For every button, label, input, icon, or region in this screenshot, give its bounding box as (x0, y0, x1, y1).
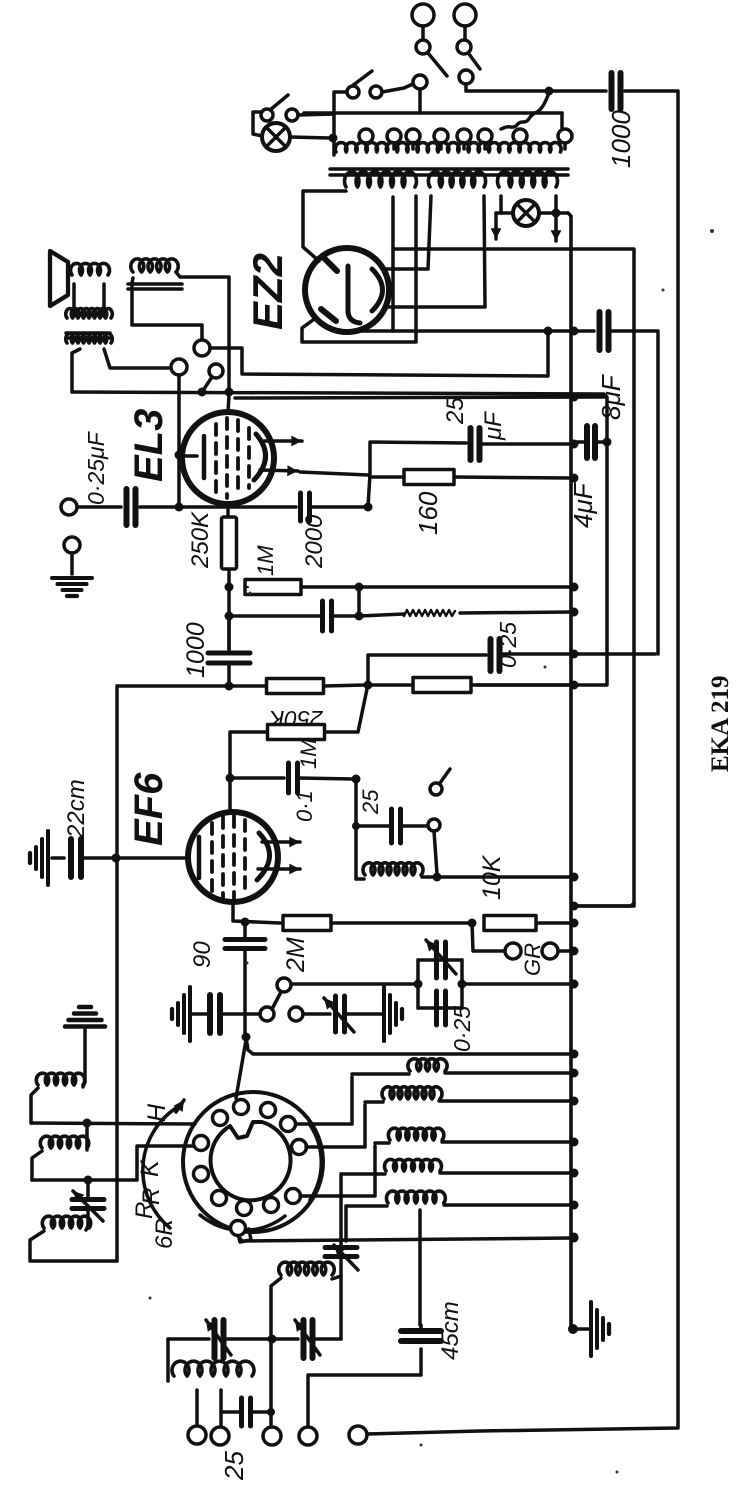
junction (364, 503, 373, 512)
terminal 3 (263, 1427, 281, 1445)
svg-text:EKA 219: EKA 219 (707, 675, 734, 772)
wire lamp bracket (253, 112, 262, 136)
wire (354, 779, 358, 879)
capacitor 22cm (71, 839, 81, 877)
wire (324, 685, 365, 686)
wire lamp to transformer (290, 137, 330, 138)
tap stub (392, 143, 396, 149)
terminal 1 (188, 1426, 206, 1444)
wire (221, 1410, 240, 1414)
junction (570, 1233, 579, 1242)
label 6R (151, 1218, 178, 1249)
EL3 connection arrow 1 (264, 436, 302, 447)
speaker cone (50, 251, 68, 306)
wire (331, 921, 470, 925)
fuse lever 2 (469, 54, 480, 69)
ground (switch) (172, 987, 190, 1041)
wire (370, 475, 404, 479)
wire phono coupling (291, 982, 415, 986)
wire (30, 1231, 117, 1261)
label H (143, 1103, 171, 1122)
wire box bottom (418, 1006, 462, 1010)
wire terminal to grid line (177, 375, 181, 503)
wire (434, 831, 437, 874)
svg-text:2M: 2M (282, 937, 310, 973)
wire (70, 553, 74, 574)
wire (332, 614, 356, 618)
svg-text:H: H (143, 1103, 171, 1122)
wire grid line (82, 856, 186, 860)
wire (382, 84, 413, 92)
primary tap terminal 2 (387, 129, 401, 143)
ground (antenna) (65, 1007, 105, 1027)
junction bus (570, 474, 579, 483)
wire S2 right to tube (386, 196, 485, 307)
wire (339, 1241, 343, 1247)
voice coil (71, 263, 110, 275)
svg-text:45cm: 45cm (437, 1301, 464, 1360)
coil L5 (386, 1191, 445, 1203)
primary tap terminal 8 (558, 129, 572, 143)
junction (241, 918, 250, 927)
ground (right) (384, 987, 402, 1041)
band switch contact 7 (264, 1198, 279, 1213)
switch lever (352, 71, 372, 86)
wire (252, 1410, 271, 1414)
wire S1 left end to plate 1 (303, 191, 346, 261)
coil L2 (382, 1087, 442, 1099)
capacitor 2000 (301, 493, 310, 521)
band switch contact 1 (213, 1111, 228, 1126)
tap 2 (219, 1390, 223, 1427)
wire (86, 1180, 90, 1198)
capacitor 45cm (401, 1331, 441, 1341)
primary tap terminal 5 (457, 129, 471, 143)
resistor 1M (EF6 grid) (268, 725, 325, 740)
capacitor 1000 (mains) (612, 73, 621, 109)
svg-text:25: 25 (358, 789, 383, 815)
tap stub (462, 143, 466, 149)
label 1M (296, 738, 321, 769)
wire (243, 926, 247, 939)
wire (85, 1123, 89, 1145)
wire box top (418, 958, 462, 962)
heater feed arrow right (551, 217, 562, 241)
resistor 1M (245, 580, 301, 595)
wire (227, 620, 231, 653)
wire (225, 1337, 298, 1341)
wire field coil right down (176, 272, 229, 389)
junction bus (570, 873, 579, 882)
svg-text:EZ2: EZ2 (244, 253, 291, 330)
junction (552, 209, 561, 218)
capacitor 0.25 (bottom) (437, 991, 446, 1025)
trimmer arrow (73, 1191, 103, 1221)
wire band K line (32, 1146, 193, 1180)
junction EL3 top cap (225, 388, 234, 397)
svg-text:0·25: 0·25 (495, 622, 521, 668)
band switch outer ring (183, 1092, 323, 1232)
wire (481, 442, 571, 446)
wire AVC line left (117, 684, 266, 688)
wire to transformer (334, 92, 347, 155)
switch contact 3 (277, 978, 291, 992)
junction bus (570, 583, 579, 592)
junction bus (570, 1201, 579, 1210)
wire (365, 1100, 383, 1104)
svg-text:4μF: 4μF (568, 481, 598, 528)
svg-text:1000: 1000 (182, 622, 210, 678)
wire (52, 856, 64, 860)
wire (454, 477, 571, 478)
label 2M (282, 937, 310, 973)
wire HV centre tap down (391, 197, 395, 331)
wire plate 2 to S1 right end (302, 196, 416, 342)
wire (402, 824, 427, 828)
band arrow (174, 1100, 185, 1112)
EF6 connection arrow 1 (262, 837, 300, 848)
switch contact 4 (459, 70, 473, 84)
wire (192, 1012, 209, 1016)
wire (31, 1088, 38, 1123)
junction AVC line (225, 682, 234, 691)
wire (444, 1203, 571, 1207)
wire box right (460, 960, 464, 1008)
wire (368, 655, 486, 685)
terminal GR a (505, 943, 521, 959)
field coil (131, 259, 178, 272)
EF6 connection arrow 2 (258, 864, 300, 875)
wire (166, 1339, 170, 1381)
wire field coil left to terminal (132, 278, 202, 340)
switch lever (204, 377, 212, 389)
wire EZ2 cathode B+ line (350, 329, 594, 333)
label 250K detector (upside down) (267, 706, 323, 732)
output transformer core (66, 333, 110, 338)
resistor 250K (EL3 grid) (222, 517, 237, 569)
EL3 cathode arc (254, 434, 266, 480)
capacitor 0.1 (289, 763, 298, 793)
junction (603, 438, 612, 447)
antenna coil A (36, 1073, 84, 1085)
primary tap terminal 3 (406, 129, 420, 143)
label GR (520, 943, 545, 976)
label EKA 219 (707, 675, 734, 772)
junction bus (570, 681, 579, 690)
fuse lever 1 (428, 53, 447, 76)
EF6 grid dashes (212, 816, 245, 900)
wire AVC vertical (115, 686, 119, 1261)
wire (298, 114, 334, 115)
wire (102, 284, 106, 316)
wire (221, 1012, 260, 1016)
wire (77, 505, 121, 509)
lamp switch contact 2 (286, 109, 298, 121)
wire L4 to switch line (339, 1174, 343, 1241)
wire (234, 776, 284, 780)
resistor 250K (detector) (267, 679, 324, 694)
svg-text:0·25μF: 0·25μF (83, 430, 109, 505)
wire (501, 652, 655, 656)
band switch rotor cam (211, 1122, 291, 1242)
wire (32, 1151, 42, 1180)
tap stub (411, 143, 415, 149)
wire (271, 1278, 281, 1339)
label EF6 (127, 772, 171, 846)
wire (301, 585, 356, 589)
junction (352, 822, 360, 830)
lamp switch lever (270, 95, 288, 110)
padder arrow 1 (206, 1320, 231, 1355)
junction bus (570, 1234, 579, 1243)
EZ2 cathode (348, 266, 360, 323)
capacitor 8uF (600, 312, 609, 350)
label 0.1 (292, 790, 317, 822)
junction bus (570, 1050, 579, 1059)
wire (463, 26, 467, 40)
padder capacitor 2 (304, 1320, 313, 1358)
junction (198, 388, 207, 397)
capacitor 1000 (208, 653, 250, 663)
band switch contact 11 (194, 1136, 209, 1151)
wire mains to junction (466, 84, 546, 91)
wire (86, 1226, 88, 1230)
svg-text:1M: 1M (296, 738, 321, 769)
junction (352, 775, 361, 784)
wire (460, 612, 571, 613)
junction field coil return (544, 327, 553, 336)
svg-text:25: 25 (219, 1451, 249, 1481)
capacitor 25 (392, 809, 401, 843)
capacitor 90 (225, 940, 265, 949)
junction (112, 854, 121, 863)
ground (grid) (30, 831, 48, 885)
EL3 grid (180, 436, 204, 478)
wire (439, 1099, 571, 1103)
junction (175, 503, 184, 512)
svg-text:K: K (136, 1159, 164, 1177)
terminal 4 (299, 1427, 317, 1445)
wire (442, 1140, 571, 1144)
antenna coil B (40, 1136, 88, 1148)
trimmer arrow (426, 940, 456, 974)
label 2000 (301, 514, 328, 569)
svg-text:1M: 1M (253, 545, 278, 576)
junction (355, 583, 364, 592)
wire (243, 949, 247, 1034)
junction (570, 393, 579, 402)
label uF (480, 411, 507, 441)
wire (596, 440, 604, 444)
wire B+ feed via field coil (210, 334, 548, 376)
band indicator arc with arrow (143, 1108, 176, 1228)
padder capacitor 1 (215, 1320, 224, 1358)
band switch contact 4 (281, 1117, 296, 1132)
pilot lamp (262, 123, 290, 151)
wire (341, 1172, 385, 1176)
junction (364, 681, 373, 690)
label R (138, 1188, 165, 1205)
switch contact 2 (289, 1007, 303, 1021)
wire OT to bus (72, 349, 80, 392)
terminal 5 (349, 1426, 367, 1444)
trimmer arrow (324, 998, 354, 1032)
tap 1 (195, 1390, 199, 1427)
primary tap terminal 7 (513, 129, 527, 143)
resistor 2M (283, 916, 331, 931)
svg-text:90: 90 (189, 941, 216, 968)
wire (346, 1204, 387, 1208)
HV secondary winding S1a (345, 172, 417, 187)
EL3 grid dashes (216, 418, 249, 498)
wire (357, 587, 361, 616)
wire (168, 1337, 209, 1341)
coil L4 (385, 1159, 442, 1171)
switch contact 1 (347, 86, 359, 98)
resistor 160 (404, 470, 454, 485)
mains terminal 2 (454, 4, 476, 26)
svg-text:μF: μF (480, 411, 507, 441)
band switch contact 9 (212, 1191, 227, 1206)
primary tap terminal 1 (359, 129, 373, 143)
junction (242, 1033, 251, 1042)
svg-text:1000: 1000 (606, 110, 636, 168)
label 160 (413, 491, 443, 535)
label 1000 (606, 110, 636, 168)
trimmer capacitor (336, 996, 345, 1032)
svg-text:0·1: 0·1 (292, 790, 317, 822)
wire band H line (31, 1123, 195, 1124)
stub (419, 1325, 423, 1331)
svg-text:EF6: EF6 (127, 772, 171, 846)
wire (368, 683, 410, 687)
junction bus (570, 650, 579, 659)
svg-text:R: R (131, 1202, 158, 1219)
trimmer capacitor (osc) (325, 1248, 357, 1257)
label 10K (478, 854, 506, 900)
junction bus (570, 327, 579, 336)
band switch contact 5 (292, 1140, 307, 1155)
fuse contact 1 (416, 40, 430, 54)
switch contact 3 (413, 75, 427, 89)
ground (bus) (591, 1302, 609, 1356)
svg-text:250K: 250K (187, 511, 214, 569)
tone switch contact b (430, 783, 442, 795)
transformer primary winding (335, 143, 561, 152)
svg-text:EL3: EL3 (127, 409, 171, 482)
oscillator coil D (279, 1262, 335, 1275)
label 1000 (AF) (182, 622, 210, 678)
wire S2 left to tube (385, 196, 431, 269)
tap stub (439, 143, 443, 149)
terminal 2 (211, 1427, 229, 1445)
wire (233, 902, 280, 923)
wire (421, 26, 425, 40)
antenna coil C (42, 1216, 90, 1228)
svg-text:0·25: 0·25 (449, 1006, 475, 1052)
wire (496, 211, 513, 215)
transformer core (330, 169, 568, 175)
coil L3 (388, 1128, 444, 1140)
junction bus (570, 608, 579, 617)
wire (462, 982, 571, 986)
heater feed arrow left (491, 213, 502, 239)
tap stub (364, 143, 368, 149)
label 22cm (63, 779, 90, 839)
wire (536, 921, 571, 925)
svg-text:160: 160 (413, 491, 443, 535)
junction (225, 583, 234, 592)
band switch contact 12 (outer) (231, 1221, 246, 1236)
junction bus (570, 1097, 579, 1106)
wire (539, 211, 568, 215)
wire (359, 585, 574, 589)
wire (560, 113, 564, 128)
svg-text:10K: 10K (478, 854, 506, 900)
earth terminal (64, 537, 80, 553)
tap stub (563, 143, 567, 149)
wire (339, 1258, 343, 1339)
wire arrow2 tail extension (300, 472, 368, 475)
wire (83, 1030, 87, 1082)
wire (86, 1210, 90, 1226)
wire contact to coil 2 (306, 1105, 365, 1147)
junction (468, 919, 477, 928)
wire contact to primary line (418, 89, 422, 113)
wire L5 tap to 45cm (418, 1210, 422, 1325)
label 1M (253, 545, 278, 576)
junction (267, 1408, 275, 1416)
wire (325, 689, 367, 732)
mains terminal 1 (412, 4, 434, 26)
label 8uF (596, 373, 626, 420)
wire (471, 683, 571, 687)
junction AVC (112, 854, 121, 863)
label K (136, 1159, 164, 1177)
capacitor 0.25uF input (127, 489, 136, 525)
heater winding S3 (498, 172, 558, 187)
capacitor (osc) (242, 1398, 251, 1426)
tone switch contact a (428, 819, 440, 831)
label 90 (189, 941, 216, 968)
junction bus end (568, 1324, 578, 1334)
dial lamp (513, 200, 539, 226)
capacitor (coupling) (323, 601, 332, 631)
wire input line (140, 505, 296, 509)
output transformer secondary (66, 334, 113, 343)
junction (225, 612, 234, 621)
label R2 (131, 1202, 158, 1219)
speaker terminal 2 (171, 359, 187, 375)
scan speckles (149, 229, 715, 1474)
wire (352, 1072, 409, 1076)
padder arrow 2 (295, 1320, 320, 1355)
fuse contact 2 (457, 40, 471, 54)
wire (83, 1082, 85, 1087)
switch contact (209, 364, 223, 378)
capacitor 25uF cathode (471, 428, 480, 460)
switch contact 2 (370, 86, 382, 98)
junction (433, 873, 442, 882)
EZ2 heater arc (372, 269, 383, 311)
label EZ2 (244, 253, 291, 330)
junction (83, 1119, 92, 1128)
bus main vertical (568, 213, 571, 1329)
wire (445, 1071, 571, 1075)
primary tap terminal 6 (478, 129, 492, 143)
EL3 connection arrow 2 (260, 465, 298, 476)
EZ2 plate 2 (321, 309, 336, 321)
